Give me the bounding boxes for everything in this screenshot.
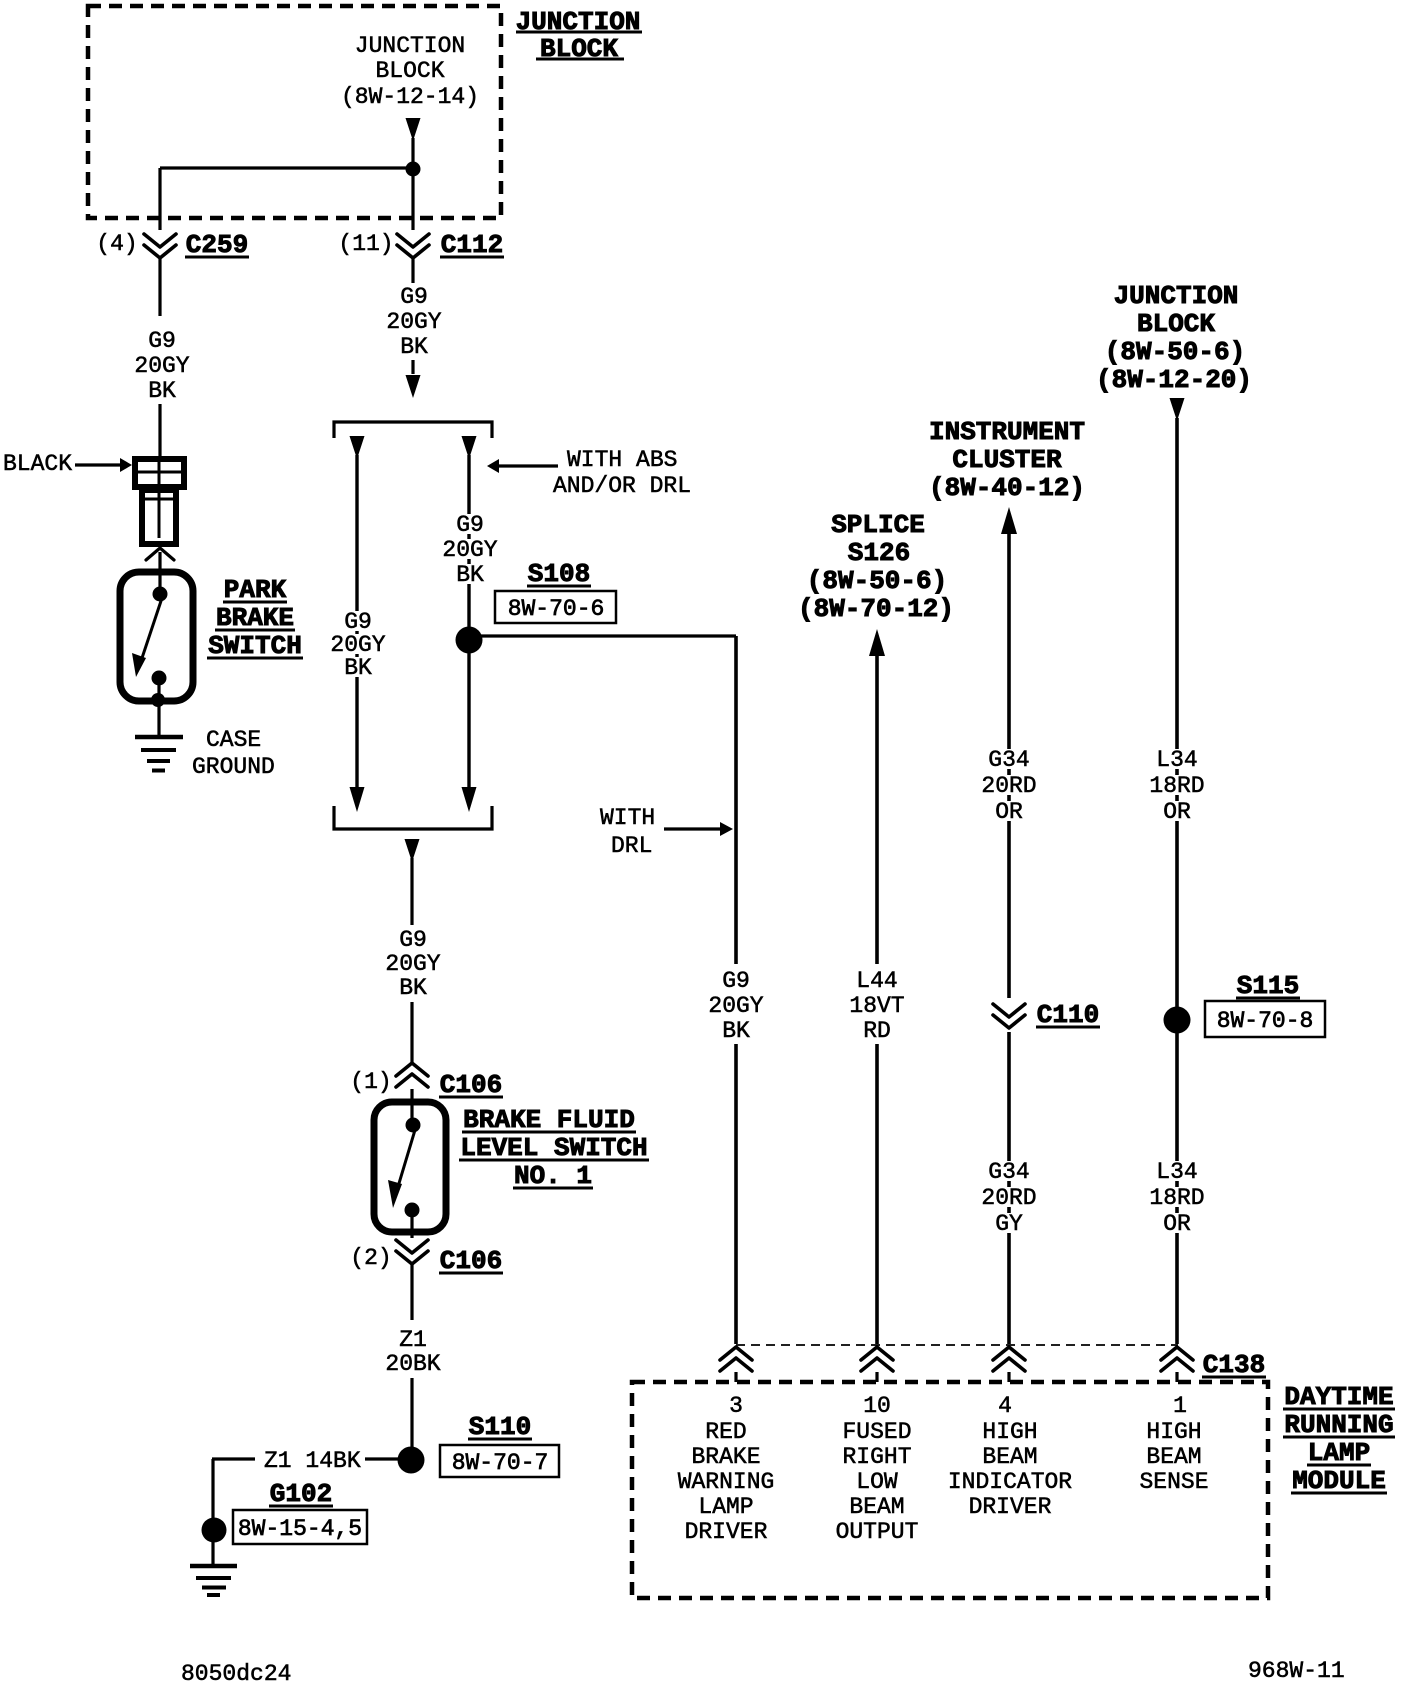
svg-text:(11): (11) xyxy=(338,231,393,257)
wire G9 below C259 xyxy=(158,259,161,316)
wire label G34 20RD OR xyxy=(986,749,1031,769)
svg-text:(4): (4) xyxy=(96,231,137,257)
wire to C106 xyxy=(410,858,413,925)
svg-text:SPLICE: SPLICE xyxy=(831,510,925,540)
svg-text:G9: G9 xyxy=(722,968,750,994)
arrow bottom left branch xyxy=(350,787,365,812)
svg-text:HIGH: HIGH xyxy=(1146,1419,1201,1445)
svg-text:10: 10 xyxy=(863,1393,891,1419)
svg-text:Z1 14BK: Z1 14BK xyxy=(264,1448,361,1474)
svg-text:DRIVER: DRIVER xyxy=(969,1494,1052,1520)
svg-text:20GY: 20GY xyxy=(386,309,441,335)
svg-text:(8W-50-6): (8W-50-6) xyxy=(807,566,947,596)
svg-text:(2): (2) xyxy=(350,1245,391,1271)
svg-text:BK: BK xyxy=(456,562,484,588)
svg-text:FUSED: FUSED xyxy=(842,1419,911,1445)
wire to park brake switch connector xyxy=(158,404,161,458)
wire Z1 to S110 xyxy=(410,1264,413,1320)
svg-text:(8W-12-20): (8W-12-20) xyxy=(1096,365,1252,395)
svg-text:LOW: LOW xyxy=(856,1469,898,1495)
node splice in junction block xyxy=(406,162,421,177)
svg-text:OUTPUT: OUTPUT xyxy=(836,1519,919,1545)
case ground xyxy=(157,720,160,737)
wire label L34 18RD OR lower xyxy=(1154,1161,1199,1181)
svg-text:20GY: 20GY xyxy=(442,537,497,563)
svg-text:S126: S126 xyxy=(848,538,910,568)
svg-text:G9: G9 xyxy=(399,927,427,953)
svg-text:20GY: 20GY xyxy=(134,353,189,379)
svg-text:L34: L34 xyxy=(1156,1159,1197,1185)
wire junction block feed xyxy=(411,138,414,230)
brake fluid level switch no. 1 xyxy=(410,1089,413,1125)
wire label G9 20GY BK xyxy=(454,514,486,534)
svg-text:1: 1 xyxy=(1173,1393,1187,1419)
wire left branch xyxy=(355,455,358,788)
wire 3 high beam indicator driver xyxy=(1001,507,1017,534)
splice S110 xyxy=(398,1447,425,1474)
svg-text:RD: RD xyxy=(863,1018,891,1044)
svg-text:BEAM: BEAM xyxy=(849,1494,904,1520)
svg-text:G9: G9 xyxy=(456,512,484,538)
svg-text:BK: BK xyxy=(344,655,372,681)
svg-text:(1): (1) xyxy=(350,1069,391,1095)
wire to park brake branch xyxy=(160,166,413,169)
connector C259 xyxy=(144,234,176,247)
svg-text:BK: BK xyxy=(722,1018,750,1044)
svg-text:BLOCK: BLOCK xyxy=(1137,309,1215,339)
svg-text:3: 3 xyxy=(729,1393,743,1419)
wire from S108 to DRL module xyxy=(481,634,736,637)
daytime running lamp module dashed box xyxy=(632,1382,1268,1598)
wire Z1 14BK to ground xyxy=(365,1457,398,1460)
svg-text:RIGHT: RIGHT xyxy=(842,1444,911,1470)
bracket merge bottom xyxy=(334,806,492,829)
svg-text:L34: L34 xyxy=(1156,747,1197,773)
svg-text:8W-70-6: 8W-70-6 xyxy=(508,596,605,622)
connector C110 xyxy=(993,1004,1025,1017)
svg-text:LAMP: LAMP xyxy=(698,1494,753,1520)
wire 1 red brake warning lamp driver xyxy=(734,636,738,964)
svg-text:8W-70-8: 8W-70-8 xyxy=(1217,1008,1314,1034)
bracket split top xyxy=(334,422,492,438)
svg-text:INSTRUMENT: INSTRUMENT xyxy=(929,417,1085,447)
svg-text:G9: G9 xyxy=(400,284,428,310)
svg-text:4: 4 xyxy=(998,1393,1012,1419)
svg-text:BK: BK xyxy=(400,334,428,360)
arrow bottom right branch xyxy=(462,787,477,812)
park brake switch xyxy=(146,548,174,560)
svg-text:BEAM: BEAM xyxy=(982,1444,1037,1470)
svg-text:8050dc24: 8050dc24 xyxy=(181,1661,291,1687)
svg-text:WARNING: WARNING xyxy=(678,1469,775,1495)
splice S115 xyxy=(1164,1007,1191,1034)
svg-text:CASE: CASE xyxy=(206,727,261,753)
svg-text:G9: G9 xyxy=(148,328,176,354)
svg-text:20GY: 20GY xyxy=(385,951,440,977)
wire label L34 18RD OR xyxy=(1154,749,1199,769)
svg-text:CLUSTER: CLUSTER xyxy=(952,445,1062,475)
svg-text:BEAM: BEAM xyxy=(1146,1444,1201,1470)
svg-text:968W-11: 968W-11 xyxy=(1248,1658,1345,1684)
svg-text:BRAKE: BRAKE xyxy=(691,1444,760,1470)
svg-text:(8W-50-6): (8W-50-6) xyxy=(1105,337,1245,367)
svg-text:8W-15-4,5: 8W-15-4,5 xyxy=(238,1516,362,1542)
connector C138 xyxy=(736,1344,1178,1346)
arrow into bracket xyxy=(411,360,414,374)
svg-text:WITH: WITH xyxy=(600,805,655,831)
wire 2 fused right low beam output xyxy=(869,629,885,656)
svg-text:BK: BK xyxy=(148,378,176,404)
splice S108 xyxy=(456,627,483,654)
junction block dashed box xyxy=(88,6,501,218)
svg-text:20RD: 20RD xyxy=(981,1185,1036,1211)
svg-text:OR: OR xyxy=(1163,799,1191,825)
svg-text:G34: G34 xyxy=(988,1159,1029,1185)
arrow right branch of bracket xyxy=(462,436,477,459)
wire label G9 20GY BK xyxy=(342,611,374,631)
svg-text:INDICATOR: INDICATOR xyxy=(948,1469,1072,1495)
svg-text:(8W-12-14): (8W-12-14) xyxy=(341,84,479,110)
connector C112 xyxy=(397,234,429,247)
svg-text:JUNCTION: JUNCTION xyxy=(1114,281,1239,311)
svg-text:Z1: Z1 xyxy=(399,1327,427,1353)
svg-text:18RD: 18RD xyxy=(1149,1185,1204,1211)
svg-text:SENSE: SENSE xyxy=(1139,1469,1208,1495)
svg-text:JUNCTION: JUNCTION xyxy=(355,33,465,59)
connector C106 pin 1 xyxy=(396,1063,428,1076)
svg-text:WITH ABS: WITH ABS xyxy=(567,447,677,473)
svg-text:20GY: 20GY xyxy=(708,993,763,1019)
svg-text:G34: G34 xyxy=(988,747,1029,773)
wire right branch with ABS/DRL xyxy=(467,455,470,788)
svg-text:BLACK: BLACK xyxy=(3,451,72,477)
svg-text:BK: BK xyxy=(399,975,427,1001)
svg-text:18RD: 18RD xyxy=(1149,773,1204,799)
arrow from junction block feed xyxy=(406,118,421,141)
svg-text:OR: OR xyxy=(995,799,1023,825)
svg-text:BLOCK: BLOCK xyxy=(375,58,444,84)
svg-text:18VT: 18VT xyxy=(849,993,904,1019)
connector C106 pin 2 xyxy=(396,1240,428,1253)
svg-text:DRL: DRL xyxy=(611,833,652,859)
arrow below bracket xyxy=(405,839,420,862)
svg-text:8W-70-7: 8W-70-7 xyxy=(452,1450,549,1476)
wire label G34 20RD GY xyxy=(986,1161,1031,1181)
svg-text:20RD: 20RD xyxy=(981,773,1036,799)
svg-text:20BK: 20BK xyxy=(385,1351,440,1377)
svg-text:L44: L44 xyxy=(856,968,897,994)
svg-text:AND/OR DRL: AND/OR DRL xyxy=(553,473,691,499)
arrow left branch of bracket xyxy=(350,436,365,459)
svg-text:HIGH: HIGH xyxy=(982,1419,1037,1445)
svg-text:GROUND: GROUND xyxy=(192,754,275,780)
svg-text:(8W-40-12): (8W-40-12) xyxy=(929,473,1085,503)
svg-text:OR: OR xyxy=(1163,1211,1191,1237)
svg-text:(8W-70-12): (8W-70-12) xyxy=(798,594,954,624)
svg-text:GY: GY xyxy=(995,1211,1023,1237)
park brake switch connector (bulb socket) xyxy=(135,459,184,487)
svg-text:DRIVER: DRIVER xyxy=(685,1519,768,1545)
svg-text:RED: RED xyxy=(705,1419,746,1445)
ground G102 xyxy=(202,1518,227,1543)
wire G9 below C112 xyxy=(411,259,414,283)
